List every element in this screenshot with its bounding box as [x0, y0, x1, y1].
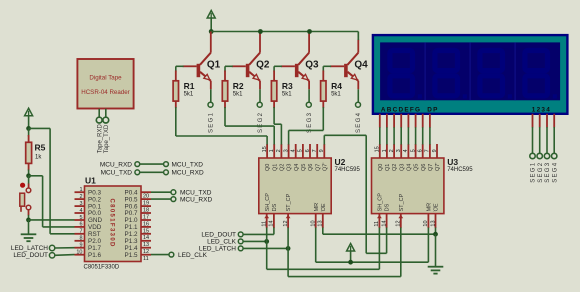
svg-text:P0.2: P0.2: [88, 196, 101, 203]
svg-text:MR: MR: [427, 203, 433, 212]
svg-text:Q3: Q3: [399, 164, 405, 171]
svg-text:6: 6: [305, 149, 311, 152]
svg-text:15: 15: [262, 146, 268, 152]
svg-text:5: 5: [298, 149, 304, 152]
svg-text:Q2: Q2: [280, 164, 286, 171]
svg-text:DS: DS: [272, 203, 278, 211]
svg-text:C8051F330D: C8051F330D: [109, 199, 115, 248]
svg-text:Q6: Q6: [421, 164, 427, 171]
svg-text:LED_CLK: LED_CLK: [207, 239, 237, 246]
svg-text:11: 11: [143, 256, 149, 262]
svg-text:C8051F330D: C8051F330D: [84, 265, 120, 271]
svg-text:15: 15: [375, 146, 381, 152]
svg-text:SEG1: SEG1: [531, 162, 537, 183]
svg-text:P1.7: P1.7: [88, 245, 101, 252]
svg-text:LED_DOUT: LED_DOUT: [201, 232, 236, 239]
svg-text:12: 12: [283, 220, 289, 226]
svg-text:MCU_RXD: MCU_RXD: [172, 170, 204, 177]
svg-text:1: 1: [79, 187, 82, 193]
svg-text:3: 3: [396, 149, 402, 152]
svg-text:Q4: Q4: [407, 164, 413, 171]
svg-text:Q4: Q4: [294, 164, 300, 171]
svg-text:10: 10: [76, 250, 82, 256]
svg-text:6: 6: [418, 149, 424, 152]
svg-text:SEG4: SEG4: [552, 162, 558, 183]
svg-text:11: 11: [262, 221, 268, 227]
svg-text:P1.4: P1.4: [125, 245, 138, 252]
svg-text:U2: U2: [335, 157, 346, 167]
svg-text:Q7': Q7': [435, 163, 441, 171]
svg-text:Q1: Q1: [385, 164, 391, 171]
svg-text:Q2: Q2: [256, 59, 270, 70]
svg-text:1k: 1k: [35, 155, 42, 161]
svg-text:2: 2: [389, 149, 395, 152]
svg-text:2: 2: [276, 149, 282, 152]
svg-text:P1.2: P1.2: [125, 231, 138, 238]
svg-text:10: 10: [423, 220, 429, 226]
svg-text:SEG1: SEG1: [209, 112, 215, 133]
svg-text:SEG3: SEG3: [545, 162, 551, 183]
svg-text:9: 9: [319, 149, 325, 152]
svg-text:3: 3: [79, 201, 82, 207]
svg-text:LED_LATCH: LED_LATCH: [11, 245, 48, 252]
svg-text:Tape_TXD: Tape_TXD: [104, 124, 110, 153]
svg-text:OE: OE: [321, 203, 327, 211]
svg-text:5: 5: [79, 215, 82, 221]
svg-text:SEG4: SEG4: [356, 112, 362, 133]
svg-text:Q7': Q7': [322, 163, 328, 171]
svg-text:MCU_RXD: MCU_RXD: [100, 161, 132, 168]
svg-text:U3: U3: [447, 157, 458, 167]
svg-text:74HC595: 74HC595: [335, 167, 361, 173]
svg-text:LED_DOUT: LED_DOUT: [13, 252, 48, 259]
svg-text:74HC595: 74HC595: [447, 167, 473, 173]
svg-text:SH_CP: SH_CP: [378, 193, 384, 212]
svg-text:R3: R3: [282, 81, 293, 91]
svg-text:Q1: Q1: [272, 164, 278, 171]
svg-text:DS: DS: [385, 203, 391, 211]
svg-text:Q1: Q1: [207, 59, 221, 70]
svg-text:R1: R1: [184, 81, 195, 91]
svg-text:14: 14: [269, 220, 275, 226]
svg-text:U1: U1: [85, 176, 96, 186]
svg-text:P0.5: P0.5: [125, 196, 138, 203]
svg-text:P0.7: P0.7: [125, 210, 138, 217]
svg-text:MR: MR: [314, 203, 320, 212]
svg-text:4: 4: [403, 149, 409, 152]
svg-text:9: 9: [432, 149, 438, 152]
svg-text:Q5: Q5: [414, 164, 420, 171]
svg-text:ABCDEFG DP: ABCDEFG DP: [381, 107, 439, 114]
svg-text:1: 1: [269, 149, 275, 152]
svg-text:13: 13: [318, 220, 324, 226]
svg-text:1234: 1234: [532, 107, 551, 114]
svg-text:R2: R2: [233, 81, 244, 91]
svg-text:LED_CLK: LED_CLK: [178, 252, 208, 259]
svg-text:Q6: Q6: [308, 164, 314, 171]
svg-text:MCU_TXD: MCU_TXD: [101, 170, 133, 177]
svg-text:Q5: Q5: [301, 164, 307, 171]
svg-text:7: 7: [79, 229, 82, 235]
svg-text:P0.0: P0.0: [88, 210, 101, 217]
svg-text:SH_CP: SH_CP: [265, 193, 271, 212]
svg-text:Tape_RXD: Tape_RXD: [97, 124, 103, 154]
svg-text:4: 4: [291, 149, 297, 152]
svg-text:6: 6: [79, 222, 82, 228]
svg-text:9: 9: [79, 243, 82, 249]
svg-text:7: 7: [425, 149, 431, 152]
svg-text:ST_CP: ST_CP: [399, 193, 405, 211]
svg-text:12: 12: [396, 220, 402, 226]
svg-text:SEG2: SEG2: [258, 112, 264, 133]
svg-text:14: 14: [381, 220, 387, 226]
svg-text:4: 4: [79, 208, 82, 214]
svg-text:RST: RST: [88, 231, 101, 238]
svg-text:3: 3: [283, 149, 289, 152]
svg-text:MCU_TXD: MCU_TXD: [172, 161, 204, 168]
svg-text:Q7: Q7: [428, 164, 434, 171]
svg-text:5k1: 5k1: [331, 92, 341, 98]
svg-text:5k1: 5k1: [282, 92, 292, 98]
svg-text:7: 7: [312, 149, 318, 152]
svg-text:OE: OE: [434, 203, 440, 211]
svg-text:MCU_RXD: MCU_RXD: [180, 196, 212, 203]
svg-text:13: 13: [430, 220, 436, 226]
svg-text:11: 11: [374, 221, 380, 227]
svg-text:Q4: Q4: [354, 59, 368, 70]
svg-text:R4: R4: [331, 81, 342, 91]
svg-text:Q0: Q0: [265, 164, 271, 171]
svg-text:Q3: Q3: [305, 59, 319, 70]
svg-text:10: 10: [311, 220, 317, 226]
svg-text:5: 5: [410, 149, 416, 152]
svg-text:P1.6: P1.6: [88, 252, 101, 259]
svg-text:5k1: 5k1: [184, 92, 194, 98]
svg-text:HCSR-04 Reader: HCSR-04 Reader: [81, 89, 130, 96]
svg-text:ST_CP: ST_CP: [286, 193, 292, 211]
svg-text:5k1: 5k1: [233, 92, 243, 98]
svg-text:1: 1: [382, 149, 388, 152]
svg-text:R5: R5: [35, 143, 46, 153]
svg-text:Q0: Q0: [378, 164, 384, 171]
svg-text:Q2: Q2: [392, 164, 398, 171]
svg-text:LED_LATCH: LED_LATCH: [199, 246, 236, 253]
svg-text:SEG2: SEG2: [538, 162, 544, 183]
svg-text:2: 2: [79, 194, 82, 200]
svg-text:P1.5: P1.5: [125, 252, 138, 259]
svg-text:Q7: Q7: [315, 164, 321, 171]
svg-text:8: 8: [79, 236, 82, 242]
svg-text:Digital Tape: Digital Tape: [89, 74, 122, 81]
svg-text:Q3: Q3: [287, 164, 293, 171]
